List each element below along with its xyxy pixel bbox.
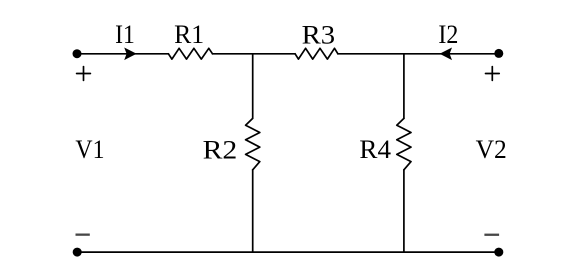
svg-text:R4: R4 — [359, 135, 391, 164]
svg-text:V2: V2 — [476, 135, 507, 164]
plus sign port 1 — [77, 67, 91, 81]
wire top-left (port 1 to R1) — [77, 53, 168, 55]
minus sign port 1 — [76, 234, 90, 236]
minus sign port 2 — [484, 234, 499, 236]
svg-text:I2: I2 — [438, 20, 458, 49]
plus sign port 2 — [486, 67, 500, 81]
terminal dot port 2 bottom — [494, 248, 503, 257]
wire bottom rail — [77, 251, 499, 253]
resistor R4 — [397, 118, 411, 169]
wire R2 to bottom rail — [252, 170, 254, 252]
wire top-right (R3 to port 2 through node B) — [338, 53, 499, 55]
terminal dot port 2 top — [494, 49, 503, 58]
terminal dot port 1 top — [73, 49, 82, 58]
wire node A to R2 — [252, 54, 254, 119]
current arrow I1 — [124, 48, 136, 61]
svg-text:R1: R1 — [174, 20, 204, 49]
wire top-middle (R1 to R3 through node A) — [213, 53, 296, 55]
resistor R3 — [295, 48, 338, 59]
terminal dot port 1 bottom — [73, 248, 82, 257]
svg-text:I1: I1 — [115, 20, 135, 49]
resistor R2 — [246, 118, 260, 169]
wire node B to R4 — [403, 54, 405, 119]
resistor R1 — [168, 48, 212, 59]
current arrow I2 — [440, 48, 452, 61]
svg-text:R3: R3 — [302, 20, 336, 49]
svg-text:R2: R2 — [203, 136, 238, 165]
svg-text:V1: V1 — [75, 135, 104, 164]
wire R4 to bottom rail — [403, 170, 405, 252]
